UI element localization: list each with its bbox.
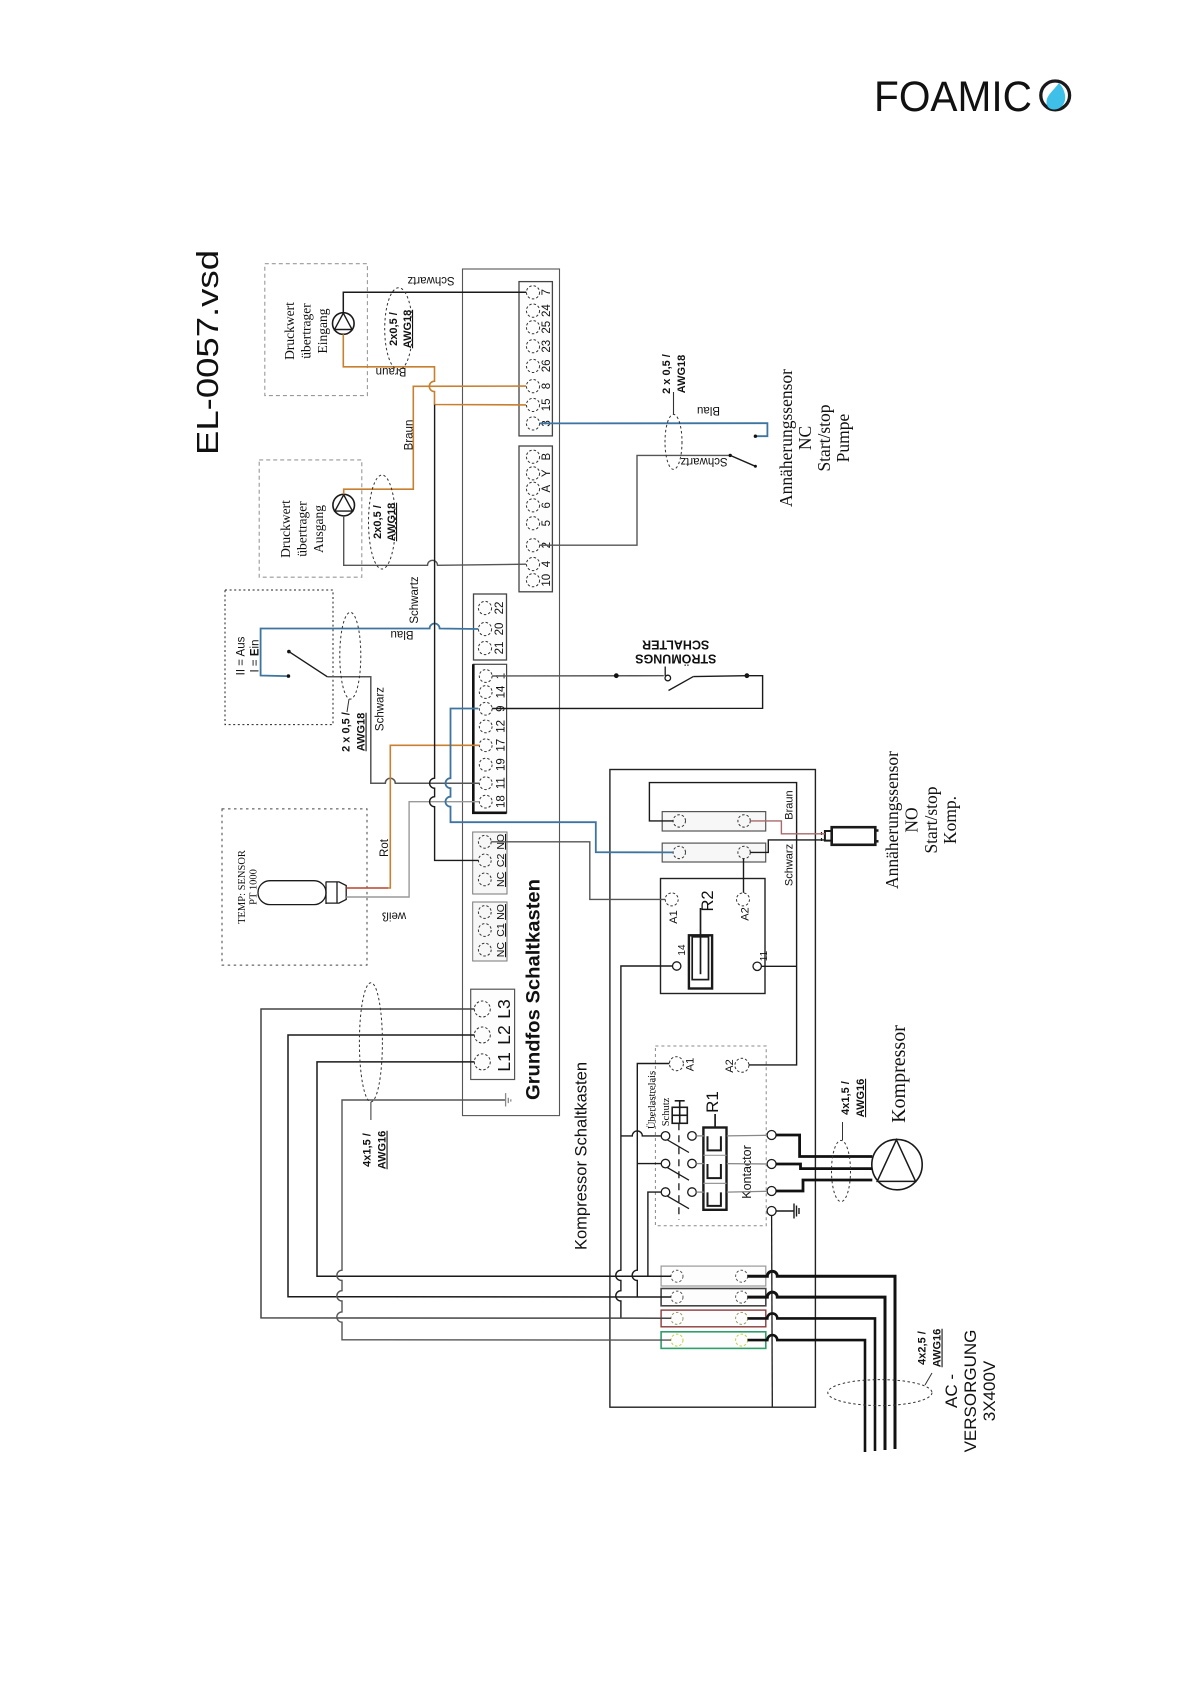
svg-text:14: 14: [677, 944, 688, 956]
svg-text:3X400V: 3X400V: [980, 1360, 999, 1421]
NC sensor contact: [729, 435, 758, 468]
svg-text:5: 5: [541, 520, 553, 526]
svg-text:A2: A2: [724, 1059, 736, 1072]
svg-text:STRÖMUNGS: STRÖMUNGS: [635, 652, 716, 667]
terminal strip X3 (22,20,21): [474, 594, 507, 660]
temp sensor PT1000 body: [258, 881, 346, 905]
svg-text:7: 7: [541, 289, 553, 295]
wire row1 horizontal: [621, 1131, 661, 1136]
svg-text:übertrager: übertrager: [299, 303, 314, 359]
svg-text:Schwartz: Schwartz: [680, 455, 728, 467]
svg-text:R2: R2: [699, 890, 717, 911]
thick motor wire 1: [776, 1135, 872, 1157]
flow switch: [614, 667, 749, 691]
Kompressor Schaltkasten box: [610, 770, 816, 1408]
wire terminal 1 to flow switch: [492, 675, 664, 677]
thick motor wire 2: [776, 1164, 872, 1169]
svg-text:Druckwert: Druckwert: [282, 302, 297, 360]
svg-text:TEMP: SENSOR: TEMP: SENSOR: [237, 850, 248, 924]
pump symbol Eingang: [333, 313, 355, 335]
svg-text:Komp.: Komp.: [940, 796, 960, 844]
svg-text:C1: C1: [495, 923, 507, 937]
svg-text:Blau: Blau: [697, 404, 720, 416]
svg-text:Eingang: Eingang: [315, 308, 330, 353]
svg-text:14: 14: [496, 685, 508, 698]
svg-text:24: 24: [541, 304, 553, 317]
wire terminal 9 blue to relay strip lower left: [446, 709, 674, 853]
wire Ausgang pump to terminal 4 (Schwartz): [344, 516, 526, 565]
wire NO(C2) to R2 A1: [491, 842, 665, 900]
svg-text:11: 11: [496, 777, 508, 789]
svg-text:Druckwert: Druckwert: [278, 500, 293, 558]
svg-text:Pumpe: Pumpe: [833, 413, 853, 462]
Kompressor pump symbol: [872, 1139, 922, 1189]
contactor pole 3: [661, 1188, 696, 1209]
overload mechanical dashed link: [678, 1123, 680, 1220]
cable ellipse 2x0,5 NC sensor: [661, 354, 688, 469]
svg-text:VERSORGUNG: VERSORGUNG: [961, 1330, 980, 1453]
ground symbol at contactor: [776, 1204, 799, 1219]
cable ellipse 2x0,5 Ausgang: [369, 475, 399, 569]
svg-text:Ausgang: Ausgang: [311, 505, 326, 553]
svg-text:Schwartz: Schwartz: [407, 274, 455, 286]
thick wire AC strip2 right to supply: [748, 1292, 885, 1450]
wire R2 A2 to relay strip lower right: [743, 859, 745, 893]
overload relay fuse symbol: [672, 1101, 687, 1124]
wire temp sensor weiss to terminal 18: [346, 802, 479, 897]
svg-text:NC: NC: [495, 871, 507, 887]
AC strip 1: [661, 1266, 766, 1286]
terminal strip X1 (7,24,25,23,26,8,15,3): [519, 282, 553, 436]
svg-text:Rot: Rot: [379, 838, 391, 857]
Ein/Aus switch box: [225, 590, 333, 725]
svg-text:4: 4: [541, 560, 553, 567]
svg-text:Braun: Braun: [784, 790, 796, 819]
contactor right terminals: [767, 1131, 776, 1216]
switch Ein/Aus: [287, 650, 328, 678]
label STROEMUNGS SCHALTER: [635, 637, 716, 666]
svg-text:15: 15: [541, 399, 553, 412]
AC strip 3 (red): [661, 1310, 766, 1327]
AC strip 4 (green/PE): [661, 1332, 766, 1349]
terminal strip X4 (1,14,9,12,17,19,11,18): [473, 664, 507, 813]
label AC VERSORGUNG 3X400V: [942, 1330, 999, 1453]
Druckwert uebertrager Eingang box: [265, 264, 368, 396]
svg-text:EL-0057.vsd: EL-0057.vsd: [190, 250, 225, 455]
svg-text:6: 6: [541, 502, 553, 508]
svg-text:weiß: weiß: [382, 910, 407, 922]
terminal strip NC C1 NO: [473, 902, 507, 961]
svg-text:AWG18: AWG18: [676, 355, 688, 394]
wire L3 to AC strip 3: [261, 1009, 671, 1318]
svg-text:11: 11: [759, 950, 770, 961]
svg-text:Annäherungssensor: Annäherungssensor: [882, 751, 902, 889]
wire R2 pin14 down to L3 row: [616, 966, 673, 1318]
svg-text:22: 22: [494, 602, 506, 615]
svg-text:Kompressor: Kompressor: [888, 1025, 910, 1123]
svg-text:Schwartz: Schwartz: [409, 576, 421, 624]
svg-text:8: 8: [541, 383, 553, 389]
svg-text:2 x 0,5 /: 2 x 0,5 /: [661, 354, 673, 394]
cable ellipse 4x1,5 left: [359, 983, 388, 1170]
FOAMICO logo: [874, 73, 1070, 121]
svg-text:26: 26: [541, 360, 553, 373]
svg-text:19: 19: [496, 758, 508, 771]
wire Ein/Aus switch to terminal 11 (Schwarz): [327, 677, 479, 783]
thick wire AC strip4 right to supply: [748, 1335, 865, 1452]
wire contactor PE down: [771, 1216, 774, 1407]
svg-text:2x0,5 /: 2x0,5 /: [388, 312, 400, 346]
svg-text:23: 23: [541, 340, 553, 353]
cable ellipse 4x2,5 AC: [828, 1329, 944, 1406]
svg-text:A1: A1: [685, 1058, 697, 1071]
svg-text:25: 25: [541, 321, 553, 334]
svg-text:AWG18: AWG18: [356, 713, 368, 752]
svg-text:NO: NO: [495, 904, 507, 920]
svg-text:12: 12: [496, 720, 508, 733]
wire terminal 20 to Ein/Aus switch (Blau): [261, 624, 479, 677]
contactor A1 A2 terminals: [669, 1057, 749, 1073]
R2 coil symbol: [689, 908, 712, 989]
svg-text:4x1,5 /: 4x1,5 /: [362, 1133, 374, 1167]
svg-text:Kompressor Schaltkasten: Kompressor Schaltkasten: [572, 1062, 591, 1250]
svg-text:4x2,5 /: 4x2,5 /: [917, 1331, 929, 1365]
svg-text:20: 20: [494, 623, 506, 636]
svg-text:Kontactor: Kontactor: [740, 1145, 754, 1199]
svg-text:Schwarz: Schwarz: [784, 844, 796, 886]
svg-text:Braun: Braun: [376, 365, 407, 377]
wire row2 horizontal: [637, 1163, 661, 1165]
svg-text:SCHALTER: SCHALTER: [642, 637, 709, 651]
wire vertical to C2: [430, 405, 479, 861]
relay output strip upper (R2 contacts): [662, 812, 766, 831]
terminal strip X2 (B,Y,A,6,5,2,4,10): [519, 446, 553, 592]
Druckwert uebertrager Ausgang box: [259, 460, 362, 577]
wire PE to AC strip 4: [337, 1100, 671, 1340]
wire flow switch to terminal 9: [492, 676, 762, 709]
svg-text:NC: NC: [495, 942, 507, 958]
svg-text:Annäherungssensor: Annäherungssensor: [776, 369, 796, 507]
AC strip 2: [661, 1289, 766, 1306]
label Annaeherungssensor NC: [776, 369, 853, 507]
wire NO sensor schwarz: [750, 840, 825, 853]
svg-text:L2: L2: [494, 1025, 514, 1044]
label Ueberlastrelais Schutz: [646, 1071, 672, 1129]
wire Ausgang pump to terminal 8 (Braun): [344, 386, 526, 494]
cable ellipse 4x1,5 motor: [832, 1079, 868, 1202]
wire contactor A1 to row2 and down to L2 row: [632, 1064, 669, 1297]
svg-text:2x0,5 /: 2x0,5 /: [372, 505, 384, 539]
wire Eingang pump to terminal 15 (Braun): [343, 334, 526, 405]
svg-text:Start/stop: Start/stop: [814, 404, 834, 471]
svg-text:AWG16: AWG16: [932, 1329, 944, 1368]
Grundfos Schaltkasten box: [463, 269, 560, 1116]
svg-text:L1: L1: [494, 1052, 514, 1071]
R2 pins 14 11: [673, 962, 762, 971]
Kontactor dashed box: [655, 1046, 766, 1226]
wire L2 to AC strip 2: [288, 1035, 671, 1297]
wire terminal7 to Eingang pump (Schwartz): [343, 292, 526, 312]
svg-text:Grundfos Schaltkasten: Grundfos Schaltkasten: [524, 879, 545, 1100]
svg-text:FOAMIC: FOAMIC: [874, 73, 1032, 121]
thick motor wire 3: [776, 1180, 872, 1191]
svg-text:2 x 0,5 /: 2 x 0,5 /: [341, 712, 353, 752]
svg-text:Schutz: Schutz: [661, 1097, 672, 1126]
svg-text:4x1,5 /: 4x1,5 /: [840, 1081, 852, 1115]
svg-text:21: 21: [494, 642, 506, 655]
svg-text:Start/stop: Start/stop: [921, 786, 941, 853]
cable ellipse 2x0,5 Eingang: [385, 288, 414, 370]
svg-text:18: 18: [496, 795, 508, 808]
wire L1 to AC strip 1: [317, 1062, 671, 1276]
svg-text:AC -: AC -: [942, 1374, 961, 1408]
thick wire AC strip3 right to supply: [748, 1313, 875, 1451]
svg-text:C2: C2: [495, 854, 507, 868]
svg-text:R1: R1: [703, 1091, 722, 1113]
cable ellipse 2x0,5 Ein/Aus: [340, 612, 368, 752]
relay output strip lower: [662, 843, 766, 862]
wire R1 to right terminals: [727, 1135, 767, 1192]
svg-text:AWG18: AWG18: [386, 503, 398, 542]
temp sensor box: [222, 809, 367, 965]
contactor pole 1: [661, 1132, 696, 1153]
svg-text:Blau: Blau: [390, 628, 413, 640]
svg-text:NO: NO: [902, 807, 922, 832]
terminal strip NC C2 NO: [473, 832, 507, 894]
NO proximity sensor symbol: [822, 827, 879, 845]
svg-text:AWG18: AWG18: [402, 310, 414, 349]
svg-text:A: A: [541, 485, 553, 493]
wire row3 to L1 row: [648, 1192, 661, 1276]
svg-text:17: 17: [496, 739, 508, 752]
R2 A1 A2 terminals: [665, 893, 749, 906]
svg-text:AWG16: AWG16: [855, 1079, 867, 1118]
wire poles to R1: [696, 1136, 704, 1192]
wire terminal 3 blue to NC sensor: [540, 423, 768, 436]
contactor pole 2: [661, 1159, 696, 1180]
wire R2 pin11 to rail: [761, 965, 796, 967]
svg-text:AWG16: AWG16: [377, 1131, 389, 1170]
R1 contactor block: [703, 1114, 726, 1210]
svg-text:II = Aus: II = Aus: [236, 636, 248, 675]
svg-text:übertrager: übertrager: [295, 501, 310, 557]
svg-text:A2: A2: [740, 907, 752, 920]
R2 relay box: [661, 879, 771, 994]
label Annaeherungssensor NO: [882, 751, 960, 889]
ground symbol at L strip: [506, 1093, 511, 1106]
svg-text:10: 10: [541, 574, 553, 587]
svg-text:A1: A1: [668, 910, 680, 923]
svg-text:Überlastrelais: Überlastrelais: [646, 1071, 658, 1129]
terminal strip L1 L2 L3: [471, 989, 515, 1079]
pump symbol Ausgang: [333, 494, 355, 516]
wire terminal 2 to NC sensor (Schwartz): [540, 455, 729, 545]
svg-text:NC: NC: [795, 426, 815, 450]
svg-text:B: B: [541, 453, 553, 461]
thick wire AC strip1 right to supply: [748, 1271, 895, 1449]
wire temp sensor Rot to terminal 17: [346, 887, 388, 889]
svg-text:Schwarz: Schwarz: [375, 687, 387, 731]
wire loop relay strip upper to contactor A2 rail: [649, 783, 796, 1065]
svg-text:PT 1000: PT 1000: [249, 869, 260, 905]
svg-text:Y: Y: [541, 469, 553, 477]
svg-text:L3: L3: [494, 999, 514, 1018]
wire NO sensor braun: [750, 821, 825, 834]
